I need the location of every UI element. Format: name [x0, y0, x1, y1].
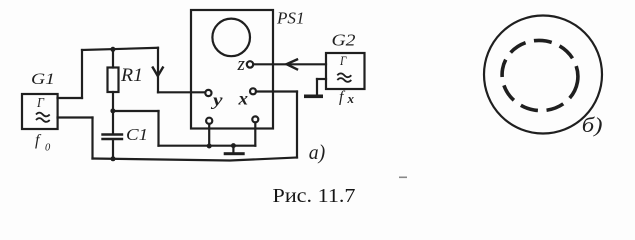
svg-text:0: 0	[45, 143, 51, 154]
svg-text:C1: C1	[126, 125, 148, 144]
svg-text:Рис. 11.7: Рис. 11.7	[273, 185, 356, 207]
svg-text:б): б)	[582, 113, 603, 137]
svg-text:Г: Г	[36, 96, 45, 111]
svg-text:z: z	[237, 54, 246, 75]
svg-text:f: f	[35, 132, 42, 149]
svg-text:Г: Г	[339, 53, 347, 68]
svg-text:x: x	[347, 91, 355, 106]
svg-text:x: x	[237, 89, 248, 109]
svg-text:а): а)	[309, 140, 325, 164]
svg-text:R1: R1	[120, 66, 143, 86]
svg-text:f: f	[339, 89, 346, 106]
svg-text:G1: G1	[31, 71, 55, 88]
svg-text:G2: G2	[332, 31, 357, 50]
svg-text:y: y	[210, 91, 223, 110]
svg-text:PS1: PS1	[276, 9, 305, 28]
